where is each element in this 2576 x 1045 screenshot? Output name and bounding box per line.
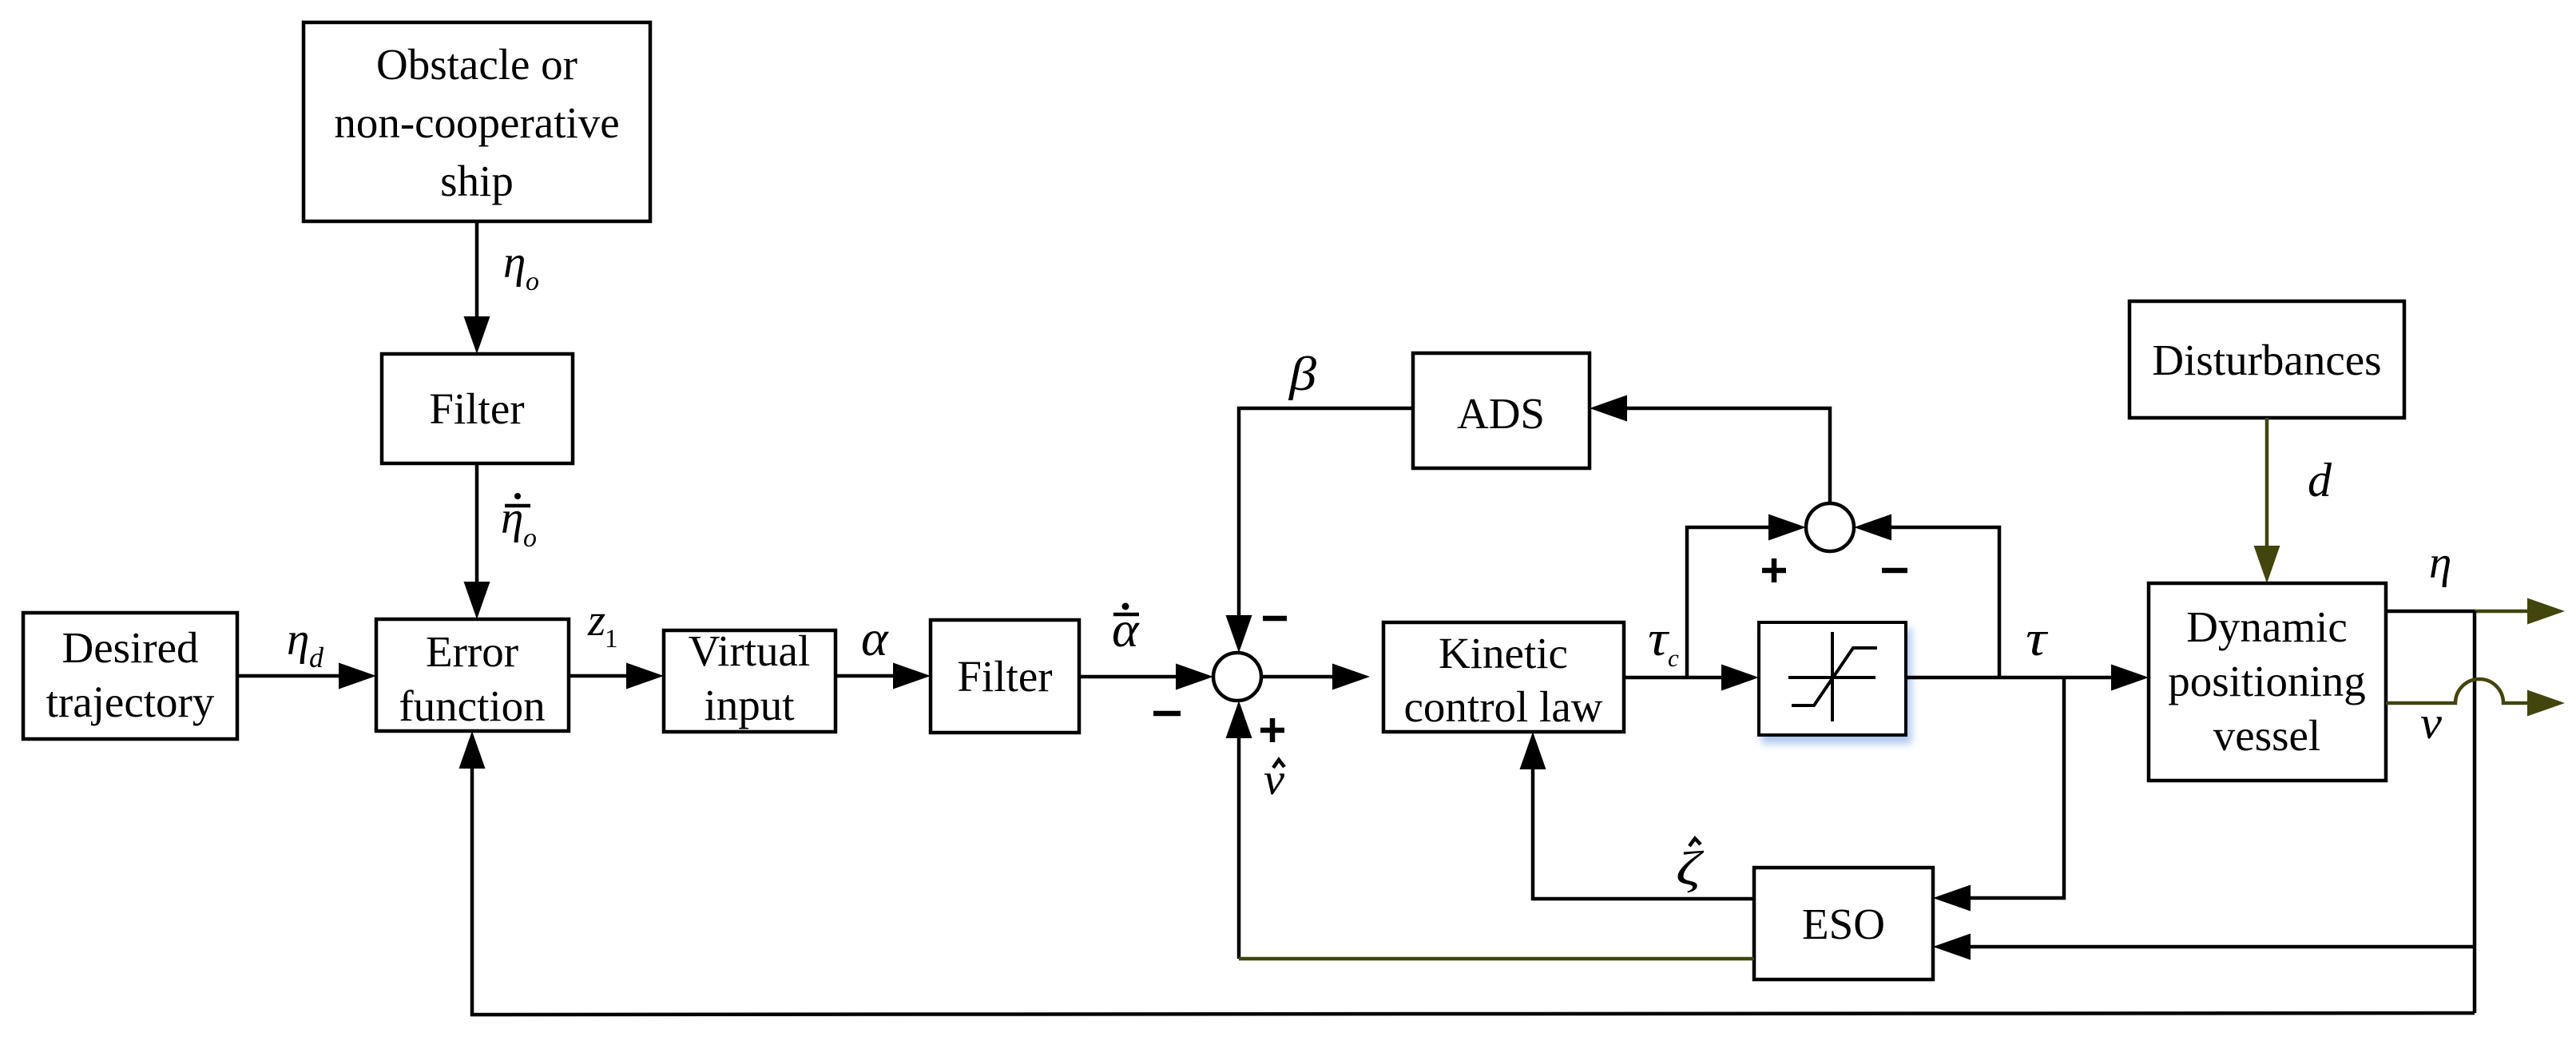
label minus (top input of S1) (1263, 616, 1287, 622)
wire: tau_c from Kinetic control law to saturation (1624, 665, 1759, 691)
wire: eta feedback vertical down (2473, 611, 2477, 1013)
box: Obstacle or non-cooperative ship (304, 22, 650, 221)
svg-text:1: 1 (605, 625, 618, 654)
svg-text:η: η (501, 493, 523, 543)
svg-text:ν: ν (1264, 755, 1284, 805)
wire: from S2 up and left into ADS (1590, 395, 1830, 504)
saturation block U1 (with shadow) (1759, 622, 1906, 735)
wire: nu output with hop (olive) (2386, 679, 2565, 717)
label minus (right input of S2) (1882, 568, 1907, 574)
svg-text:α: α (861, 610, 889, 666)
svg-text:ν: ν (2420, 697, 2442, 749)
svg-text:d: d (309, 642, 324, 673)
wire: branch from tau_c up to summing junction S2 (1687, 515, 1806, 678)
svg-text:Filter: Filter (429, 384, 524, 433)
label eta_o bar dot (501, 493, 537, 553)
svg-text:Error: Error (426, 627, 518, 676)
box: Disturbances (2129, 301, 2404, 418)
wire: nu-hat vertical into S1 bottom (1226, 701, 1252, 959)
wire: alpha from Virtual input to Filter (836, 663, 931, 689)
svg-text:Obstacle or: Obstacle or (376, 40, 578, 89)
svg-text:β: β (1288, 348, 1316, 400)
svg-text:ESO: ESO (1802, 900, 1885, 948)
wire: beta path from ADS to summing junction S1 (1226, 408, 1413, 653)
summing junction S2 (1806, 503, 1854, 551)
label alpha bar dot (1112, 601, 1140, 658)
label eta_o (503, 237, 539, 296)
svg-text:Virtual: Virtual (689, 626, 811, 675)
label eta_d (287, 614, 324, 673)
svg-text:ADS: ADS (1457, 389, 1545, 438)
label plus (left input of S2) (1762, 558, 1786, 582)
wire: tau from saturation to Dynamic positioning vessel (1906, 665, 2149, 691)
wire: tau feedback up to S2 right input (1854, 515, 1999, 678)
svg-text:c: c (1668, 644, 1679, 672)
wire: nu-hat from ESO to S1 (olive horizontal) (1239, 957, 1754, 961)
label plus (bottom input of S1) (1260, 718, 1284, 742)
label zeta-hat (1676, 839, 1705, 896)
wire: tau feedback down to ESO upper input (1933, 677, 2064, 912)
wire: eta_o from Obstacle ship to Filter (464, 221, 490, 354)
svg-text:Kinetic: Kinetic (1439, 629, 1568, 677)
svg-text:τ: τ (1648, 612, 1670, 666)
box: Filter (lower) (931, 620, 1079, 733)
box: Virtual input (664, 626, 836, 732)
svg-text:z: z (587, 595, 605, 646)
svg-text:non-cooperative: non-cooperative (334, 98, 619, 147)
svg-text:Filter: Filter (957, 652, 1052, 701)
wire: alpha-bar-dot from Filter to summing junction S1 (1079, 664, 1213, 690)
svg-text:Disturbances: Disturbances (2152, 336, 2381, 384)
wire: from summing junction S1 to Kinetic control law (1261, 664, 1370, 690)
svg-text:ship: ship (440, 157, 514, 205)
summing junction S1 (1213, 653, 1261, 701)
wire: d from Disturbances to Dynamic positioning vessel (olive) (2254, 418, 2280, 583)
box: Dynamic positioning vessel (2149, 583, 2386, 781)
wire: eta_o-bar-dot from Filter to Error function (464, 463, 490, 619)
box: ESO (1754, 868, 1933, 979)
svg-text:input: input (704, 681, 794, 729)
box: Desired trajectory (23, 613, 237, 739)
box: Error function (376, 619, 569, 731)
wire: eta output (black segment) (2386, 610, 2475, 614)
wire: zeta-hat from ESO to Kinetic control law (1520, 732, 1755, 899)
svg-text:τ: τ (2026, 612, 2049, 666)
label minus (left input of S1) (1153, 711, 1181, 717)
svg-text:Desired: Desired (62, 623, 198, 672)
svg-text:η: η (287, 614, 309, 665)
label nu-hat (1264, 755, 1284, 805)
label tau_c (1648, 612, 1679, 672)
svg-text:o: o (523, 523, 537, 553)
svg-text:trajectory: trajectory (46, 677, 215, 726)
svg-text:η: η (2429, 538, 2451, 588)
svg-text:function: function (399, 681, 545, 730)
label z1 (587, 595, 618, 654)
wire: z1 from Error function to Virtual input (569, 663, 664, 689)
wire: eta output arrow (olive) (2475, 598, 2565, 625)
svg-text:ζ: ζ (1676, 842, 1705, 895)
svg-text:positioning: positioning (2168, 657, 2366, 705)
svg-text:vessel: vessel (2213, 711, 2320, 760)
box: ADS (1413, 353, 1590, 468)
svg-text:Dynamic: Dynamic (2186, 602, 2348, 651)
svg-text:o: o (526, 267, 539, 296)
box: Filter (upper) (382, 354, 573, 463)
wire: eta_d from Desired trajectory to Error function (237, 663, 376, 689)
svg-text:α: α (1112, 601, 1140, 658)
svg-text:η: η (503, 237, 526, 288)
svg-text:control law: control law (1404, 682, 1603, 731)
wire: feedback from eta line into ESO lower input (1933, 934, 2475, 960)
wire: bottom feedback loop to Error function (459, 731, 2475, 1015)
svg-text:d: d (2308, 454, 2332, 507)
box: Kinetic control law (1383, 622, 1624, 732)
